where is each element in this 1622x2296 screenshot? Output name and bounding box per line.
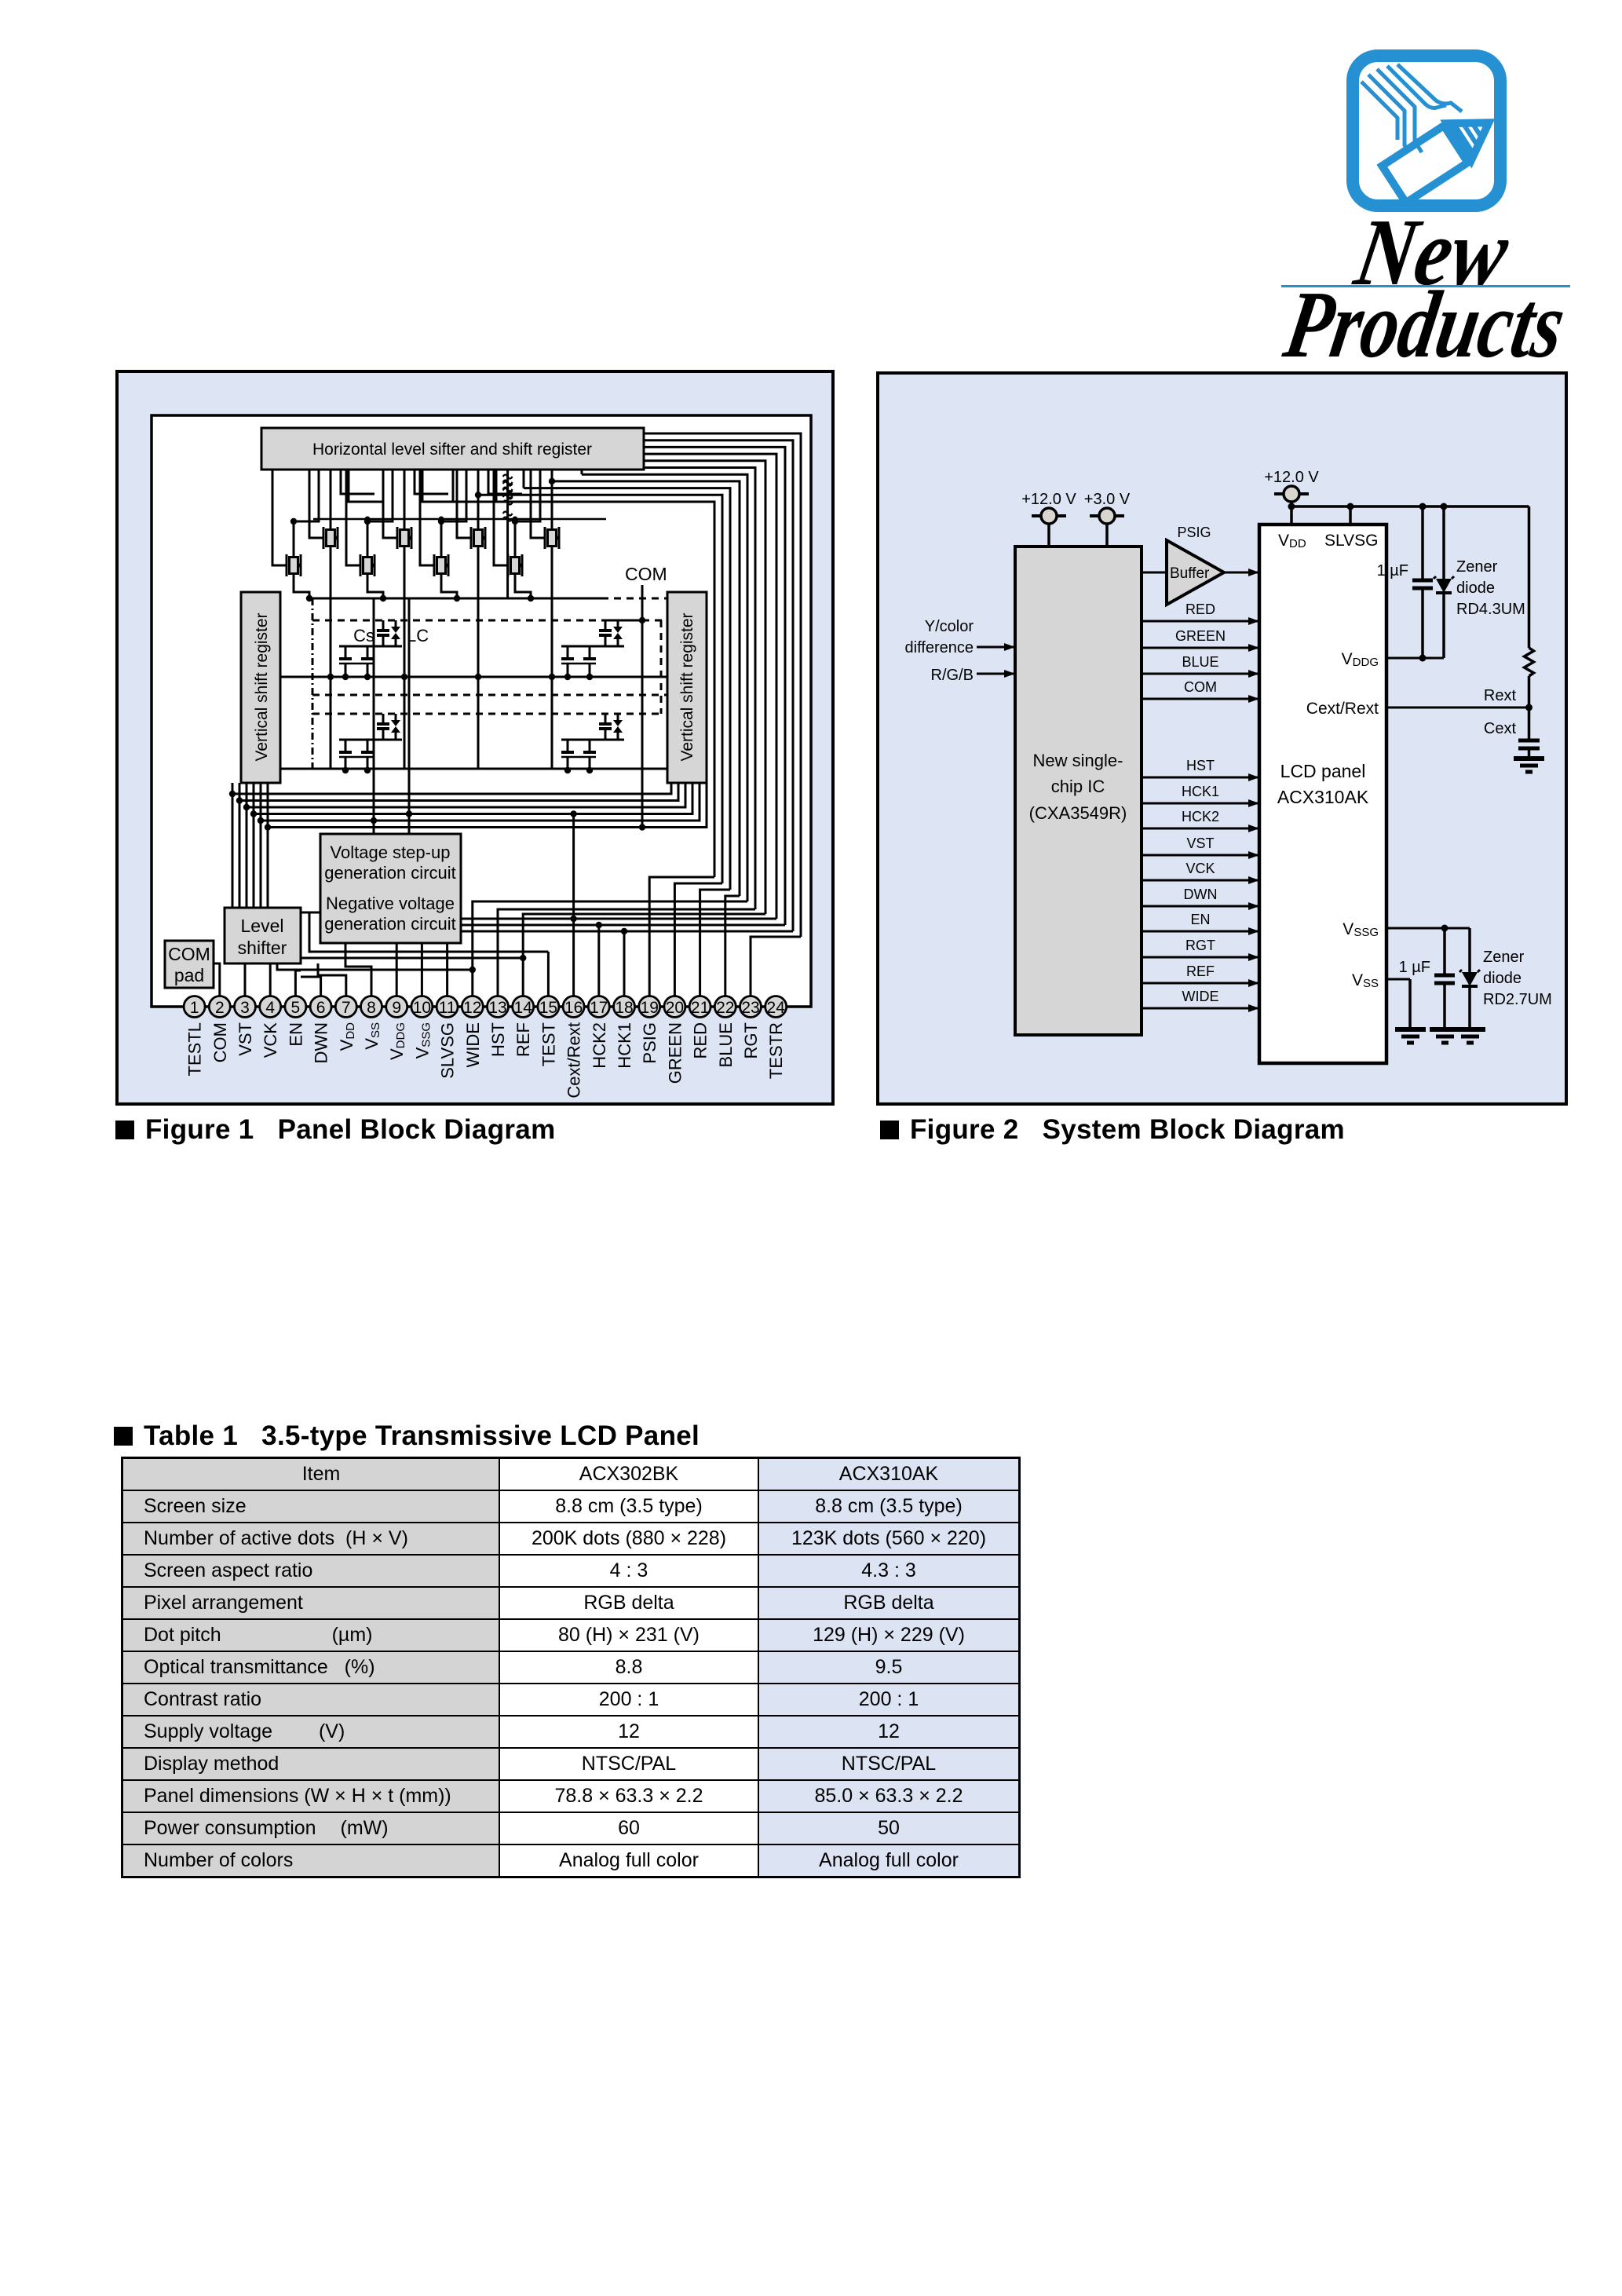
svg-text:HCK2: HCK2 xyxy=(1182,809,1219,824)
svg-text:Zener: Zener xyxy=(1483,949,1525,966)
transistor Q8 (row 2) xyxy=(502,550,522,581)
svg-text:(CXA3549R): (CXA3549R) xyxy=(1029,803,1127,823)
svg-text:generation circuit: generation circuit xyxy=(324,863,456,883)
svg-text:RED: RED xyxy=(691,1022,711,1058)
pad 6 DWN xyxy=(310,996,331,1018)
wire pad 17 riser xyxy=(597,925,600,996)
wire pad 15 riser xyxy=(547,952,550,996)
pad 9 VDDG xyxy=(386,996,407,1018)
svg-text:GREEN: GREEN xyxy=(1175,628,1226,644)
svg-text:VST: VST xyxy=(236,1022,255,1056)
wire VSSG xyxy=(1386,927,1470,930)
svg-text:diode: diode xyxy=(1456,579,1495,597)
array dashed line r2 xyxy=(312,713,661,715)
panel outline (inner white box) xyxy=(152,415,811,1007)
wire fan line 2 xyxy=(644,441,793,931)
svg-text:Negative voltage: Negative voltage xyxy=(326,894,455,913)
svg-text:New single-: New single- xyxy=(1033,751,1123,770)
array left dashed column xyxy=(312,598,314,769)
wire level shifter to pads 5,6 xyxy=(295,971,301,996)
pad 13 HST xyxy=(488,996,509,1018)
transistor Q2 (row 2) xyxy=(280,550,301,581)
wires column group 3 xyxy=(477,470,480,522)
svg-text:2: 2 xyxy=(215,999,225,1017)
svg-text:ACX310AK: ACX310AK xyxy=(1277,787,1369,807)
svg-text:chip IC: chip IC xyxy=(1051,777,1105,796)
svg-text:17: 17 xyxy=(590,999,608,1017)
svg-text:SLVSG: SLVSG xyxy=(1324,532,1378,550)
wire VDDG xyxy=(1386,657,1444,660)
wire fan line 3 xyxy=(644,447,785,925)
wire fan line 5 xyxy=(644,461,765,914)
array dashed line r1b xyxy=(312,694,667,696)
zener diode D2 RD2.7UM xyxy=(1468,928,1471,972)
figure 1 background frame xyxy=(117,371,833,1104)
svg-text:Vertical shift register: Vertical shift register xyxy=(678,612,696,761)
svg-text:DWN: DWN xyxy=(1184,887,1218,902)
wire column to step-up circuit A xyxy=(373,598,375,834)
svg-text:Cext/Rext: Cext/Rext xyxy=(564,1022,584,1099)
transistor Q3 (row 1) xyxy=(391,522,411,554)
svg-text:DWN: DWN xyxy=(312,1022,331,1064)
svg-text:WIDE: WIDE xyxy=(1182,989,1219,1004)
svg-text:COM: COM xyxy=(210,1022,230,1062)
break marks xyxy=(503,475,513,484)
svg-text:shifter: shifter xyxy=(238,938,287,958)
transistor Q6 (row 2) xyxy=(428,550,448,581)
pad 8 VSS xyxy=(361,996,382,1018)
pixel cell 2 xyxy=(605,620,607,631)
wire fan line 10 xyxy=(478,495,722,883)
wire fan feed stubs xyxy=(581,470,583,474)
wire pad 20 riser xyxy=(674,883,722,996)
power +3.0 V xyxy=(1084,491,1131,547)
svg-text:pad: pad xyxy=(174,965,204,985)
svg-text:14: 14 xyxy=(514,999,533,1017)
svg-text:Voltage step-up: Voltage step-up xyxy=(331,843,451,862)
svg-text:HCK1: HCK1 xyxy=(615,1022,634,1069)
svg-text:generation circuit: generation circuit xyxy=(324,914,456,934)
transistor Q1 (row 1) xyxy=(317,522,338,554)
wire pad 24 to edge bus xyxy=(787,1006,811,1008)
wire COM pad to pad 2 xyxy=(214,963,220,996)
vertical shift register (left) xyxy=(241,592,280,783)
wire pad 16 riser xyxy=(572,814,575,996)
figure 2 xyxy=(876,371,1568,1110)
wire fan line 1 xyxy=(644,433,801,937)
wire level shifter to pads 3,4 xyxy=(244,963,247,996)
wire pad 8 to step-up box xyxy=(345,943,371,996)
LCD panel ACX310AK xyxy=(1259,525,1386,1063)
svg-text:REF: REF xyxy=(513,1022,533,1057)
svg-text:Cext: Cext xyxy=(1484,720,1517,737)
svg-text:SLVSG: SLVSG xyxy=(438,1022,458,1079)
pad 19 PSIG xyxy=(639,996,660,1018)
table caption xyxy=(114,1420,700,1452)
wire fan line 8 xyxy=(552,481,740,896)
ground (VSS) xyxy=(1395,1029,1426,1043)
figure 2 background frame xyxy=(878,373,1566,1104)
svg-text:GREEN: GREEN xyxy=(665,1022,685,1084)
pad 23 RGT xyxy=(740,996,762,1018)
logo blue rule xyxy=(1281,285,1570,287)
wire bus registers to level shifter xyxy=(232,783,234,908)
wire horizontal bus between registers xyxy=(232,783,671,794)
wire +12V bus xyxy=(1291,505,1529,508)
svg-text:BLUE: BLUE xyxy=(1182,654,1218,670)
wire data column with break marks xyxy=(506,470,509,598)
ground (Cext) xyxy=(1514,759,1544,772)
svg-text:3: 3 xyxy=(240,999,250,1017)
power +12.0 V (right) xyxy=(1264,469,1319,525)
logo word New xyxy=(1347,199,1517,305)
wire fan line 4 xyxy=(644,454,776,919)
pad 21 RED xyxy=(689,996,711,1018)
svg-text:LCD panel: LCD panel xyxy=(1280,761,1366,781)
svg-text:diode: diode xyxy=(1483,970,1522,987)
svg-text:12: 12 xyxy=(463,999,481,1017)
svg-text:11: 11 xyxy=(439,999,456,1017)
wires column group 2 xyxy=(404,470,406,522)
svg-text:RGT: RGT xyxy=(741,1022,761,1058)
wire fan line 9 xyxy=(524,488,730,890)
pad 2 COM xyxy=(209,996,230,1018)
svg-text:EN: EN xyxy=(1190,912,1210,927)
logo New Products xyxy=(1280,47,1594,369)
pixel cell 1 (Cs/LC labeled) xyxy=(382,620,385,631)
svg-text:23: 23 xyxy=(741,999,759,1017)
svg-text:13: 13 xyxy=(488,999,506,1017)
pad 12 WIDE xyxy=(462,996,483,1018)
wires column group 4 xyxy=(551,470,553,522)
pad 4 VCK xyxy=(260,996,281,1018)
svg-text:16: 16 xyxy=(564,999,583,1017)
wire fan line 11 xyxy=(453,502,714,877)
caption figure 1 xyxy=(115,1114,556,1146)
svg-text:TEST: TEST xyxy=(539,1022,558,1066)
pad 17 HCK2 xyxy=(588,996,609,1018)
pad 22 BLUE xyxy=(714,996,736,1018)
wire fan line 7 xyxy=(582,474,747,901)
logo connector body xyxy=(1382,104,1500,203)
svg-text:difference: difference xyxy=(905,639,974,656)
svg-text:COM: COM xyxy=(168,944,210,964)
logo flex cable stripes xyxy=(1361,64,1462,152)
svg-text:RD2.7UM: RD2.7UM xyxy=(1483,991,1552,1008)
svg-text:TESTR: TESTR xyxy=(766,1022,786,1079)
wire SLVSG stub xyxy=(1349,506,1352,525)
svg-text:1 µF: 1 µF xyxy=(1377,562,1408,579)
transistor Q7 (row 1) xyxy=(539,522,559,554)
table 1 xyxy=(121,1457,1021,1878)
svg-text:EN: EN xyxy=(286,1022,305,1047)
pad 15 TEST xyxy=(538,996,559,1018)
svg-text:Products: Products xyxy=(1280,271,1573,369)
caption figure 2 xyxy=(880,1114,1345,1146)
wire VSS xyxy=(1386,978,1410,981)
pad 7 VDD xyxy=(335,996,356,1018)
wires column group 1 xyxy=(330,470,332,522)
wire pad 7 to level shifter xyxy=(318,963,346,996)
svg-text:10: 10 xyxy=(413,999,431,1017)
pad 5 EN xyxy=(285,996,306,1018)
svg-text:PSIG: PSIG xyxy=(640,1022,659,1064)
COM pad box xyxy=(165,941,214,988)
ground (C2) xyxy=(1430,1029,1460,1043)
pad 1 TESTL xyxy=(184,996,205,1018)
array right dashed column xyxy=(660,620,663,714)
svg-text:Rext: Rext xyxy=(1484,687,1517,704)
wire pad 23 riser xyxy=(751,937,801,996)
wire pad 22 riser xyxy=(725,896,740,996)
svg-text:Cext/Rext: Cext/Rext xyxy=(1306,700,1379,718)
voltage step-up generation circuit box xyxy=(320,834,461,943)
svg-text:21: 21 xyxy=(691,999,709,1017)
svg-text:1 µF: 1 µF xyxy=(1399,959,1430,976)
svg-text:Zener: Zener xyxy=(1456,558,1498,576)
pad 24 TESTR xyxy=(765,996,787,1018)
transistor Q4 (row 2) xyxy=(354,550,374,581)
resistor Rext xyxy=(1528,506,1531,648)
svg-text:+3.0 V: +3.0 V xyxy=(1084,491,1131,508)
svg-text:24: 24 xyxy=(767,999,786,1017)
wire pad 21 riser xyxy=(700,890,730,996)
svg-text:Buffer: Buffer xyxy=(1170,565,1210,582)
svg-text:HST: HST xyxy=(488,1022,508,1057)
pad 11 SLVSG xyxy=(437,996,458,1018)
vertical shift register (right) xyxy=(667,592,707,783)
wire level shifter to step-up box xyxy=(301,912,320,914)
svg-text:TESTL: TESTL xyxy=(185,1022,205,1076)
svg-text:22: 22 xyxy=(716,999,734,1017)
svg-text:HCK1: HCK1 xyxy=(1182,784,1219,799)
wire buffer to panel PSIG xyxy=(1224,572,1259,574)
svg-text:15: 15 xyxy=(539,999,557,1017)
wire pad 12 riser xyxy=(473,901,747,996)
svg-text:4: 4 xyxy=(265,999,275,1017)
svg-text:6: 6 xyxy=(316,999,326,1017)
svg-text:Horizontal level sifter and sh: Horizontal level sifter and shift regist… xyxy=(312,441,592,459)
wire column to step-up circuit B xyxy=(408,598,411,834)
array row line 1 bottom xyxy=(280,676,667,678)
svg-text:VST: VST xyxy=(1186,835,1214,851)
ground (D2) xyxy=(1455,1029,1485,1043)
svg-text:WIDE: WIDE xyxy=(463,1022,483,1067)
figure 1 xyxy=(115,370,835,1110)
power +12.0 V (left) xyxy=(1021,491,1076,547)
svg-text:18: 18 xyxy=(615,999,633,1017)
wire gate rail xyxy=(313,518,606,521)
svg-text:+12.0 V: +12.0 V xyxy=(1264,469,1319,486)
pad 3 VST xyxy=(235,996,256,1018)
node dots on bus xyxy=(1288,503,1295,510)
wire pad 19 riser xyxy=(649,877,714,996)
pad 10 VSSG xyxy=(411,996,433,1018)
horizontal level sifter and shift register xyxy=(261,428,644,470)
svg-text:REF: REF xyxy=(1186,963,1215,979)
svg-text:1: 1 xyxy=(190,999,199,1017)
pad 14 REF xyxy=(513,996,534,1018)
wire pads 9-11 to step-up box xyxy=(396,943,398,996)
svg-text:HCK2: HCK2 xyxy=(590,1022,609,1069)
svg-text:20: 20 xyxy=(666,999,684,1017)
svg-text:PSIG: PSIG xyxy=(1177,525,1211,540)
svg-text:VCK: VCK xyxy=(261,1022,280,1058)
level shifter box xyxy=(225,908,301,963)
array dashed line r1 xyxy=(312,620,601,622)
IC U1 CXA3549R xyxy=(1015,547,1142,1035)
svg-text:7: 7 xyxy=(342,999,351,1017)
logo rounded square xyxy=(1353,56,1500,206)
pad 18 HCK1 xyxy=(614,996,635,1018)
pixel cell 3 xyxy=(382,714,385,724)
wire pad 13 riser xyxy=(498,909,755,996)
svg-text:Level: Level xyxy=(241,916,284,936)
svg-text:VCK: VCK xyxy=(1185,861,1215,876)
svg-text:+12.0 V: +12.0 V xyxy=(1021,491,1076,508)
zener diode D1 RD4.3UM xyxy=(1442,506,1445,579)
svg-text:9: 9 xyxy=(392,999,401,1017)
wire negative voltage outputs xyxy=(461,918,776,920)
svg-text:RGT: RGT xyxy=(1185,938,1215,953)
array row line 2 bottom xyxy=(280,768,667,770)
wire fan line 6 xyxy=(644,468,755,910)
svg-text:COM: COM xyxy=(1184,679,1217,695)
transistor Q5 (row 1) xyxy=(465,522,485,554)
svg-text:8: 8 xyxy=(367,999,376,1017)
wire IC to buffer xyxy=(1142,572,1167,574)
logo word Products xyxy=(1277,271,1573,378)
svg-text:5: 5 xyxy=(291,999,301,1017)
wire pad 14 riser xyxy=(523,914,765,996)
svg-text:19: 19 xyxy=(641,999,659,1017)
array row line 1 top xyxy=(312,598,601,600)
svg-text:Cs: Cs xyxy=(353,626,374,645)
svg-text:RD4.3UM: RD4.3UM xyxy=(1456,601,1525,618)
svg-text:HST: HST xyxy=(1186,758,1215,773)
pad 16 Cext/Rext xyxy=(563,996,584,1018)
svg-text:Vertical shift register: Vertical shift register xyxy=(253,612,271,761)
svg-text:R/G/B: R/G/B xyxy=(931,667,974,684)
svg-text:COM: COM xyxy=(625,564,667,584)
pixel cell 4 xyxy=(605,714,607,724)
svg-text:BLUE: BLUE xyxy=(716,1022,736,1067)
svg-text:Y/color: Y/color xyxy=(925,618,974,635)
pad 20 GREEN xyxy=(664,996,685,1018)
wire pad 18 riser xyxy=(623,931,626,996)
wire Cext/Rext xyxy=(1386,707,1529,709)
wire level shifter lower taps xyxy=(277,963,473,970)
svg-text:RED: RED xyxy=(1185,601,1215,617)
